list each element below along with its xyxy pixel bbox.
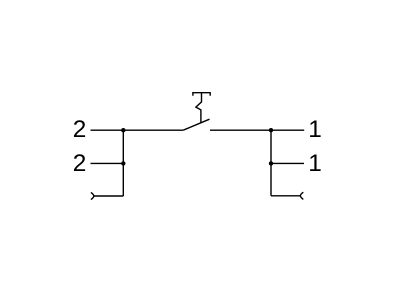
wire left bottom stub: [94, 195, 124, 197]
wire right bottom stub: [271, 195, 300, 197]
junction node left top: [121, 128, 125, 132]
junction node right top: [269, 128, 273, 132]
svg-text:1: 1: [308, 150, 322, 177]
svg-text:2: 2: [73, 150, 87, 177]
junction node left bottom: [121, 161, 125, 165]
connector chevron right: [300, 192, 303, 199]
pushbutton S1 stem with latch kink: [196, 93, 202, 123]
wire right contact to terminal 1 top row: [210, 129, 304, 131]
junction node right bottom: [269, 161, 273, 165]
pushbutton S1 actuator cap: [193, 93, 210, 96]
svg-text:2: 2: [73, 116, 87, 143]
pushbutton S1 switch blade (normally open): [183, 119, 209, 130]
wire right terminal 1 bottom row: [271, 162, 304, 164]
wire left terminal 2 top row: [91, 129, 184, 131]
wire left terminal 2 bottom row: [91, 162, 124, 164]
wire right vertical bus: [270, 130, 272, 196]
svg-text:1: 1: [308, 116, 322, 143]
connector chevron left: [91, 192, 94, 199]
wire left vertical bus: [122, 130, 124, 196]
